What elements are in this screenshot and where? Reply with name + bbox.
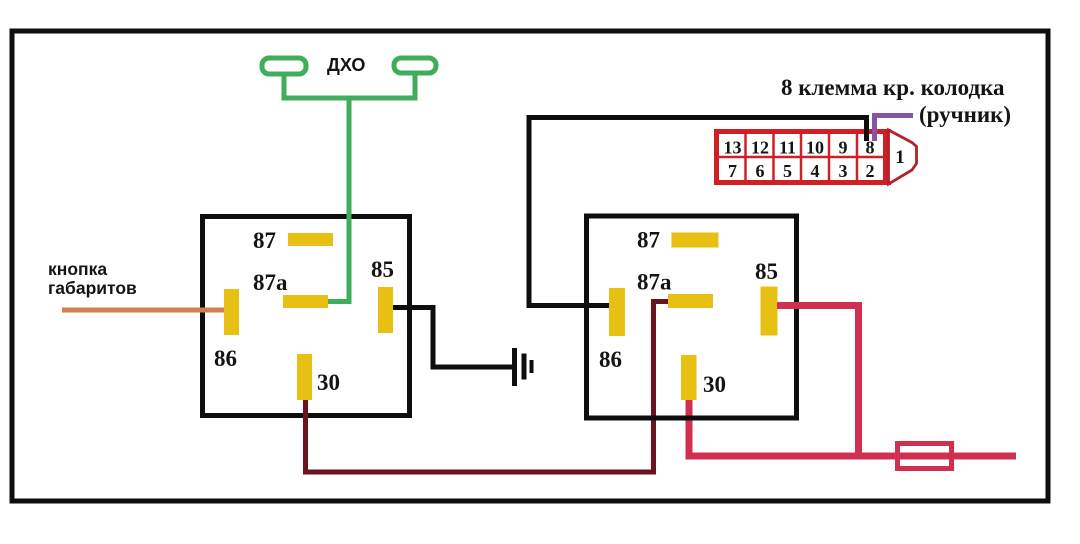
svg-text:10: 10: [806, 138, 824, 158]
svg-text:12: 12: [751, 138, 769, 158]
svg-text:9: 9: [839, 138, 848, 158]
svg-text:13: 13: [724, 138, 742, 158]
wire green lamp-left drop: [282, 76, 287, 98]
fuse F1: [898, 444, 952, 469]
svg-text:8 клемма кр. колодка: 8 клемма кр. колодка: [781, 75, 1005, 100]
svg-text:86: 86: [599, 347, 622, 372]
relay K1 pin 86: [224, 289, 239, 335]
svg-text:(ручник): (ручник): [919, 102, 1011, 127]
relay K2 box: [587, 216, 797, 418]
svg-text:11: 11: [779, 138, 796, 158]
svg-text:87: 87: [253, 228, 276, 253]
svg-text:3: 3: [839, 161, 848, 181]
relay K2 pin 85: [761, 287, 778, 336]
relay K2 pin 87: [672, 233, 719, 248]
lamp ДХО right: [394, 58, 436, 73]
svg-text:1: 1: [895, 147, 905, 168]
svg-text:30: 30: [317, 370, 340, 395]
relay K1 pin 87: [288, 233, 333, 246]
svg-text:5: 5: [783, 161, 792, 181]
svg-text:2: 2: [866, 161, 875, 181]
relay K1 pin 87a: [283, 295, 328, 308]
wire green bus: [282, 96, 418, 101]
svg-text:4: 4: [811, 161, 820, 181]
wire green lamp-right drop: [413, 75, 418, 98]
svg-text:30: 30: [703, 372, 726, 397]
svg-text:ДХО: ДХО: [327, 55, 365, 75]
svg-text:габаритов: габаритов: [48, 278, 137, 298]
wire crimson K2 pin 30 to fuse and right: [689, 399, 1016, 456]
relay K1 pin 85: [378, 287, 393, 333]
wire orange button to K1 pin 86: [62, 308, 224, 313]
relay K1 box: [203, 217, 410, 416]
svg-text:85: 85: [371, 257, 394, 282]
svg-text:6: 6: [756, 161, 765, 181]
wire green drop to relay K1 pin 87a: [328, 98, 349, 302]
ground: [512, 348, 517, 386]
relay K2 pin 30: [681, 355, 697, 400]
svg-text:87: 87: [637, 228, 660, 253]
wire black K1 pin 85 to ground: [393, 308, 512, 368]
svg-text:7: 7: [728, 161, 737, 181]
relay K1 pin 30: [297, 354, 312, 400]
lamp ДХО left: [262, 58, 306, 74]
relay K2 pin 87a: [668, 294, 713, 308]
wire black connector pin 8 to K2 pin 86: [529, 118, 867, 306]
relay K2 pin 86: [609, 288, 625, 336]
svg-text:кнопка: кнопка: [48, 259, 107, 279]
connector X1 body: [717, 132, 887, 183]
connector X1 grid lines: [744, 132, 747, 183]
wire crimson K2 pin 85 down to fuse line: [777, 306, 859, 457]
wire purple ручник to connector pin 8: [875, 116, 914, 142]
connector X1 arrow part pin 1: [889, 130, 917, 184]
svg-text:87а: 87а: [253, 270, 288, 295]
svg-text:86: 86: [214, 346, 237, 371]
svg-text:87а: 87а: [637, 270, 672, 295]
wire maroon K1 pin 30 to K2 pin 87a: [306, 302, 669, 473]
wire crimson through fuse: [898, 453, 951, 460]
svg-text:85: 85: [755, 259, 778, 284]
